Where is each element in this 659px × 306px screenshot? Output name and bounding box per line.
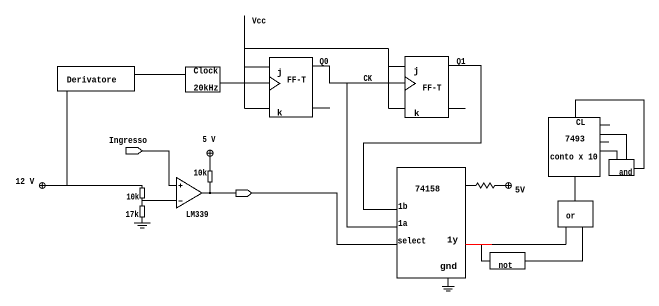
svg-text:conto x 10: conto x 10 [550,153,598,163]
svg-text:1y: 1y [447,236,459,246]
svg-text:select: select [398,237,426,247]
svg-text:12 V: 12 V [16,177,35,187]
svg-text:Q1: Q1 [457,57,466,67]
svg-text:20kHz: 20kHz [194,83,219,93]
svg-text:LM339: LM339 [186,210,209,220]
svg-text:j: j [414,67,419,77]
svg-text:and: and [619,168,632,178]
svg-text:Ingresso: Ingresso [109,136,147,146]
svg-text:FF-T: FF-T [287,76,307,86]
svg-text:Vcc: Vcc [252,16,266,26]
svg-text:74158: 74158 [415,185,440,195]
svg-text:1b: 1b [398,202,408,212]
svg-text:or: or [566,211,575,221]
svg-text:10k: 10k [194,169,208,179]
svg-text:not: not [499,261,513,271]
svg-text:gnd: gnd [440,262,457,272]
svg-text:CL: CL [576,118,585,128]
svg-text:5 V: 5 V [203,135,216,145]
svg-text:Q0: Q0 [320,57,329,67]
svg-text:FF-T: FF-T [423,84,443,94]
svg-text:j: j [277,68,282,78]
svg-text:17k: 17k [126,210,140,220]
svg-text:5V: 5V [515,186,526,196]
svg-text:Clock: Clock [194,67,219,77]
svg-text:Derivatore: Derivatore [67,76,117,86]
svg-text:CK: CK [364,74,373,84]
svg-text:1a: 1a [398,219,408,229]
svg-text:k: k [414,109,420,119]
svg-text:10k: 10k [126,193,139,203]
svg-text:k: k [277,109,283,119]
svg-text:7493: 7493 [565,135,585,145]
